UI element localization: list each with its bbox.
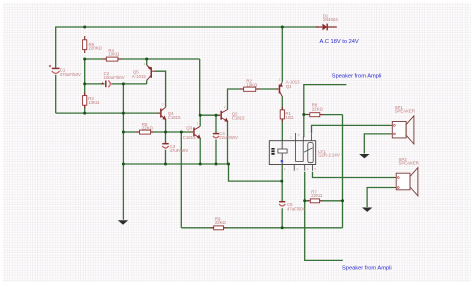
diode D1 1N4004 [316, 14, 338, 31]
node Q3 collector [199, 114, 202, 117]
node rail C4 [215, 163, 218, 166]
capacitor C4 [213, 131, 238, 140]
ground symbol SP2 [362, 208, 372, 212]
svg-text:A-1015: A-1015 [132, 74, 146, 79]
ground symbol bottom left [118, 220, 128, 225]
svg-text:Speaker from Ampli: Speaker from Ampli [342, 265, 392, 271]
node C5 top [280, 180, 283, 183]
transistor Q3 C1815 [183, 125, 201, 140]
svg-text:G2R-2 24V: G2R-2 24V [318, 153, 340, 158]
wire x199.7 vertical to Q3 collector node [199, 59, 201, 115]
wire Q3 emitter down [199, 138, 201, 164]
node C2 left [83, 82, 86, 85]
wire R2 to Q1 base [257, 88, 279, 90]
wire Q2 collector to R2 [228, 89, 243, 110]
svg-text:10KΩ: 10KΩ [108, 52, 119, 57]
node Q4 emitter C3 [164, 131, 167, 134]
capacitor C2 [102, 71, 125, 87]
wire C3 vertical [165, 132, 167, 164]
wire y113 line to Q4 base [56, 112, 160, 114]
svg-text:SPEAKER: SPEAKER [399, 161, 419, 166]
svg-text:A.C 18V to 24V: A.C 18V to 24V [320, 39, 359, 45]
transistor Q5 A-1015 [132, 65, 155, 80]
svg-text:Q3: Q3 [186, 125, 192, 130]
node R7 left [303, 199, 306, 202]
resistor R1 [280, 107, 293, 122]
resistor R9 [211, 216, 227, 229]
svg-text:SPEAKER: SPEAKER [395, 109, 415, 114]
svg-text:10Ω: 10Ω [285, 115, 293, 120]
node rail Q3 emitter [199, 163, 202, 166]
capacitor C3 [162, 144, 188, 154]
svg-text:47uF/50V: 47uF/50V [170, 148, 189, 153]
node rail Q1 emitter [281, 26, 284, 29]
svg-text:10KΩ: 10KΩ [88, 100, 99, 105]
resistor R8 [307, 103, 324, 117]
speaker SP2 [395, 157, 419, 196]
svg-text:470uF/50V: 470uF/50V [60, 72, 81, 77]
node Q3 base [180, 131, 183, 134]
resistor R4 [103, 48, 122, 61]
wire Q2 emitter down [227, 121, 229, 165]
svg-text:100uF/50V: 100uF/50V [104, 75, 125, 80]
node R6 bottom R4 [83, 58, 86, 61]
node R5 left [122, 131, 125, 134]
wire bottom rail [123, 164, 281, 181]
node C4 top [215, 114, 218, 117]
ground symbol SP1 [359, 154, 369, 158]
wire relay coil to C5 [281, 165, 283, 228]
node C5 bottom R9 [281, 226, 284, 229]
svg-text:22KΩ: 22KΩ [312, 107, 323, 112]
svg-text:22KΩ: 22KΩ [215, 220, 226, 225]
svg-text:22KΩ: 22KΩ [311, 193, 322, 198]
wire Q3 base node down to R9 line [180, 132, 182, 228]
wire C2 right to Q5 collector [111, 80, 147, 84]
wire relay to SP1 [312, 125, 391, 133]
transistor Q2 C1815 [218, 110, 245, 123]
wire C2 left stub [85, 83, 105, 85]
node bus y113 [122, 112, 125, 115]
svg-text:22KΩ: 22KΩ [142, 125, 153, 130]
wire x342 sense vertical [342, 115, 344, 228]
node rail C3 [164, 163, 167, 166]
wire R8 left stub [304, 114, 309, 116]
node R7 right [341, 199, 344, 202]
wire R1 to relay coil [281, 119, 283, 140]
resistor R2 [240, 79, 259, 92]
node C2 right bus [122, 82, 125, 85]
wire Q4 emitter down [165, 119, 167, 132]
svg-text:C1815: C1815 [183, 135, 196, 140]
wire Q3 collector up [199, 115, 201, 126]
wire SP1 to ground [364, 134, 390, 154]
resistor R3 [83, 93, 100, 109]
wire relay to SP2 [313, 172, 395, 178]
node rail R6 top [83, 26, 86, 29]
svg-text:47uF/50V: 47uF/50V [287, 206, 306, 211]
node R8 left [302, 113, 305, 116]
svg-text:10KΩ: 10KΩ [246, 82, 257, 87]
transistor Q4 C1815 [158, 107, 182, 120]
relay LY1 G2R-2 24V [269, 133, 340, 171]
wire R3 bottom stub [84, 105, 86, 113]
wire R7 line [305, 200, 343, 202]
wire y115.2 Q2 base line [200, 114, 220, 116]
wire x84.7 vertical R6 bottom to R3 [84, 59, 86, 97]
node rail x123 [122, 163, 125, 166]
speaker SP1 [391, 105, 416, 144]
wire Q5 base to Q4 collector [155, 71, 166, 107]
wire Q1 collector to R1 [281, 96, 283, 109]
node Q5 emitter rail [145, 58, 148, 61]
capacitor C1 [49, 65, 81, 77]
wire C4 vertical [215, 115, 217, 164]
node R3 bottom [83, 112, 86, 115]
wire y132 line R5 to Q3 base [123, 131, 192, 133]
wire Q1 emitter vertical [281, 27, 283, 82]
wire x123.4 vertical to ground [122, 84, 124, 220]
svg-text:1N4004: 1N4004 [323, 17, 339, 22]
svg-text:Q1: Q1 [286, 84, 292, 89]
svg-text:220KΩ: 220KΩ [89, 46, 102, 51]
wire R9 line to x342 vertical [181, 227, 342, 229]
svg-text:P: P [298, 133, 300, 137]
wire R8 right to sense vertical [322, 114, 343, 116]
wire y59 line R4/Q5 emitter rail [85, 58, 200, 60]
capacitor C5 [279, 202, 306, 212]
resistor R6 [83, 36, 102, 53]
resistor R7 [307, 190, 323, 203]
wire Q5 emitter [146, 59, 148, 65]
wire top speaker stub and x303.8 vertical [304, 85, 347, 138]
svg-text:22uF/50V: 22uF/50V [219, 135, 238, 140]
svg-text:C1815: C1815 [232, 116, 245, 121]
transistor Q1 A-1013 [276, 80, 300, 97]
resistor R5 [136, 122, 154, 134]
node rail Q2 emitter [227, 163, 230, 166]
wire SP2 to ground [367, 188, 394, 208]
wire top rail and left vertical [56, 27, 318, 113]
wire relay contact to bottom speaker stub [305, 172, 343, 261]
svg-text:C1815: C1815 [168, 115, 181, 120]
svg-text:Speaker from Ampli: Speaker from Ampli [332, 73, 382, 79]
